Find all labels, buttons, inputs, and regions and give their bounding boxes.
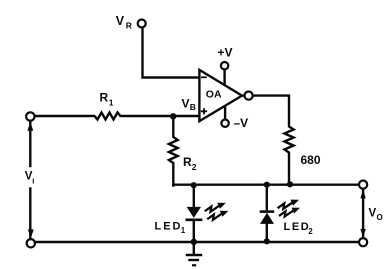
svg-text:V: V xyxy=(182,97,190,111)
svg-text:R: R xyxy=(100,91,109,105)
svg-text:R: R xyxy=(183,155,192,169)
svg-text:B: B xyxy=(190,102,196,112)
svg-text:680: 680 xyxy=(301,153,321,167)
svg-text:O: O xyxy=(377,213,383,222)
svg-text:V: V xyxy=(116,14,125,28)
svg-text:R: R xyxy=(126,21,132,31)
svg-text:V: V xyxy=(369,208,377,220)
svg-text:2: 2 xyxy=(308,227,313,236)
svg-text:2: 2 xyxy=(192,162,197,172)
svg-text:OA: OA xyxy=(206,88,222,100)
svg-text:–V: –V xyxy=(234,116,249,130)
svg-text:LED: LED xyxy=(284,221,311,233)
svg-text:+V: +V xyxy=(218,46,233,60)
svg-text:1: 1 xyxy=(109,98,114,108)
svg-text:1: 1 xyxy=(181,226,186,235)
svg-text:LED: LED xyxy=(155,220,183,232)
svg-text:I: I xyxy=(32,177,34,186)
